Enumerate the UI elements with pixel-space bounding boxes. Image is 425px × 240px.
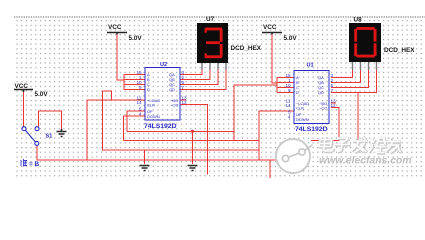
svg-text:DCD_HEX: DCD_HEX xyxy=(231,45,262,52)
svg-text:DOWN: DOWN xyxy=(147,114,160,119)
svg-text:DOWN: DOWN xyxy=(296,117,309,122)
svg-text:9: 9 xyxy=(288,88,291,93)
svg-text:QD: QD xyxy=(318,90,324,95)
svg-text:www.elecfans.com: www.elecfans.com xyxy=(319,156,412,167)
svg-text:9: 9 xyxy=(139,85,142,90)
svg-text:D: D xyxy=(296,90,299,95)
svg-text:U1: U1 xyxy=(307,63,314,69)
svg-text:4: 4 xyxy=(288,114,291,119)
svg-text:CLR: CLR xyxy=(296,105,304,110)
svg-text:D: D xyxy=(147,87,150,92)
svg-text:7: 7 xyxy=(182,85,185,90)
svg-text:~CO: ~CO xyxy=(170,102,178,107)
svg-text:14: 14 xyxy=(137,100,143,105)
svg-text:U8: U8 xyxy=(354,17,363,24)
svg-text:DCD_HEX: DCD_HEX xyxy=(384,47,415,54)
svg-text:S1: S1 xyxy=(46,134,53,140)
svg-text:12: 12 xyxy=(182,100,188,105)
svg-text:14: 14 xyxy=(286,103,292,108)
svg-text:74LS192D: 74LS192D xyxy=(295,126,328,133)
svg-text:VCC: VCC xyxy=(263,24,277,31)
svg-text:7: 7 xyxy=(331,88,334,93)
svg-text:QD: QD xyxy=(169,87,175,92)
svg-text:CLR: CLR xyxy=(147,102,155,107)
svg-text:= B: = B xyxy=(29,161,40,168)
svg-text:4: 4 xyxy=(139,111,142,116)
svg-text:5.0V: 5.0V xyxy=(129,35,143,42)
svg-text:5.0V: 5.0V xyxy=(35,91,49,98)
svg-text:U7: U7 xyxy=(206,16,215,23)
svg-text:12: 12 xyxy=(331,103,337,108)
svg-text:5.0V: 5.0V xyxy=(284,35,298,42)
svg-text:U2: U2 xyxy=(160,62,167,68)
svg-text:VCC: VCC xyxy=(15,83,29,90)
svg-text:VCC: VCC xyxy=(108,24,122,31)
svg-text:74LS192D: 74LS192D xyxy=(144,123,177,130)
svg-text:~CO: ~CO xyxy=(319,105,327,110)
